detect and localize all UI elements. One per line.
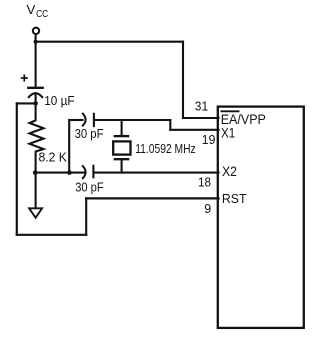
node VCC label (27, 2, 49, 20)
crystal Y1 bottom plate (115, 158, 128, 160)
wire into pin 18 X2 (94, 172, 219, 174)
svg-text:30 pF: 30 pF (75, 180, 104, 195)
capacitor C3 30pF straight plate (92, 166, 94, 178)
svg-text:RST: RST (222, 191, 247, 206)
svg-text:8.2 K: 8.2 K (39, 150, 68, 165)
crystal Y1 body (113, 141, 130, 154)
svg-text:CC: CC (36, 9, 48, 20)
junction node vertical connector bottom (67, 170, 72, 175)
wire bottom horizontal (17, 234, 86, 236)
crystal Y1 top plate (115, 135, 128, 137)
svg-text:19: 19 (202, 132, 216, 147)
wire C1 bottom lead (35, 95, 37, 104)
wire VCC terminal down to C1 (35, 34, 37, 87)
pin label EA/VPP overline (222, 110, 239, 112)
capacitor C1 10uF curved bottom plate (29, 93, 42, 97)
svg-text:10 µF: 10 µF (44, 93, 74, 108)
ground symbol (29, 208, 42, 217)
crystal Y1 bottom lead (121, 159, 123, 172)
svg-text:11.0592 MHz: 11.0592 MHz (135, 141, 196, 156)
wire left from C1 node (17, 102, 36, 104)
IC U1 body (218, 107, 304, 328)
resistor R1 8.2K (30, 103, 44, 172)
wire step down to X1 row (169, 120, 171, 130)
svg-text:30 pF: 30 pF (75, 126, 104, 141)
wire vertical connector between cap rows (68, 120, 70, 173)
wire C2 to step corner (94, 119, 170, 121)
capacitor C2 30pF curved plate (83, 114, 86, 126)
capacitor C2 30pF straight plate (93, 114, 95, 126)
junction node resistor bottom (33, 170, 38, 175)
wire step up to RST row (85, 198, 87, 234)
wire top row to C2 (69, 119, 82, 121)
junction VCC branch (34, 40, 38, 44)
wire into pin 19 X1 (170, 129, 218, 131)
capacitor C1 10uF top plate (28, 87, 42, 89)
svg-text:18: 18 (198, 174, 211, 189)
capacitor C3 30pF curved plate (83, 166, 86, 178)
junction node below C1 (33, 101, 38, 106)
svg-text:9: 9 (204, 202, 211, 216)
crystal Y1 top lead (121, 120, 123, 136)
wire into pin 31 EA/VPP (183, 117, 219, 119)
capacitor C1 10uF plus sign (22, 75, 27, 80)
svg-text:V: V (27, 2, 36, 17)
svg-text:31: 31 (195, 98, 208, 113)
wire top horizontal rail (36, 41, 183, 43)
wire pin 31 vertical drop (182, 42, 184, 118)
VCC terminal circle (33, 28, 39, 34)
wire ground lead (35, 173, 37, 209)
svg-text:X1: X1 (221, 126, 235, 141)
svg-text:X2: X2 (222, 164, 237, 179)
wire into pin 9 RST (86, 197, 218, 199)
wire bottom row from node to C3 (36, 172, 85, 174)
wire left vertical down (16, 103, 18, 234)
